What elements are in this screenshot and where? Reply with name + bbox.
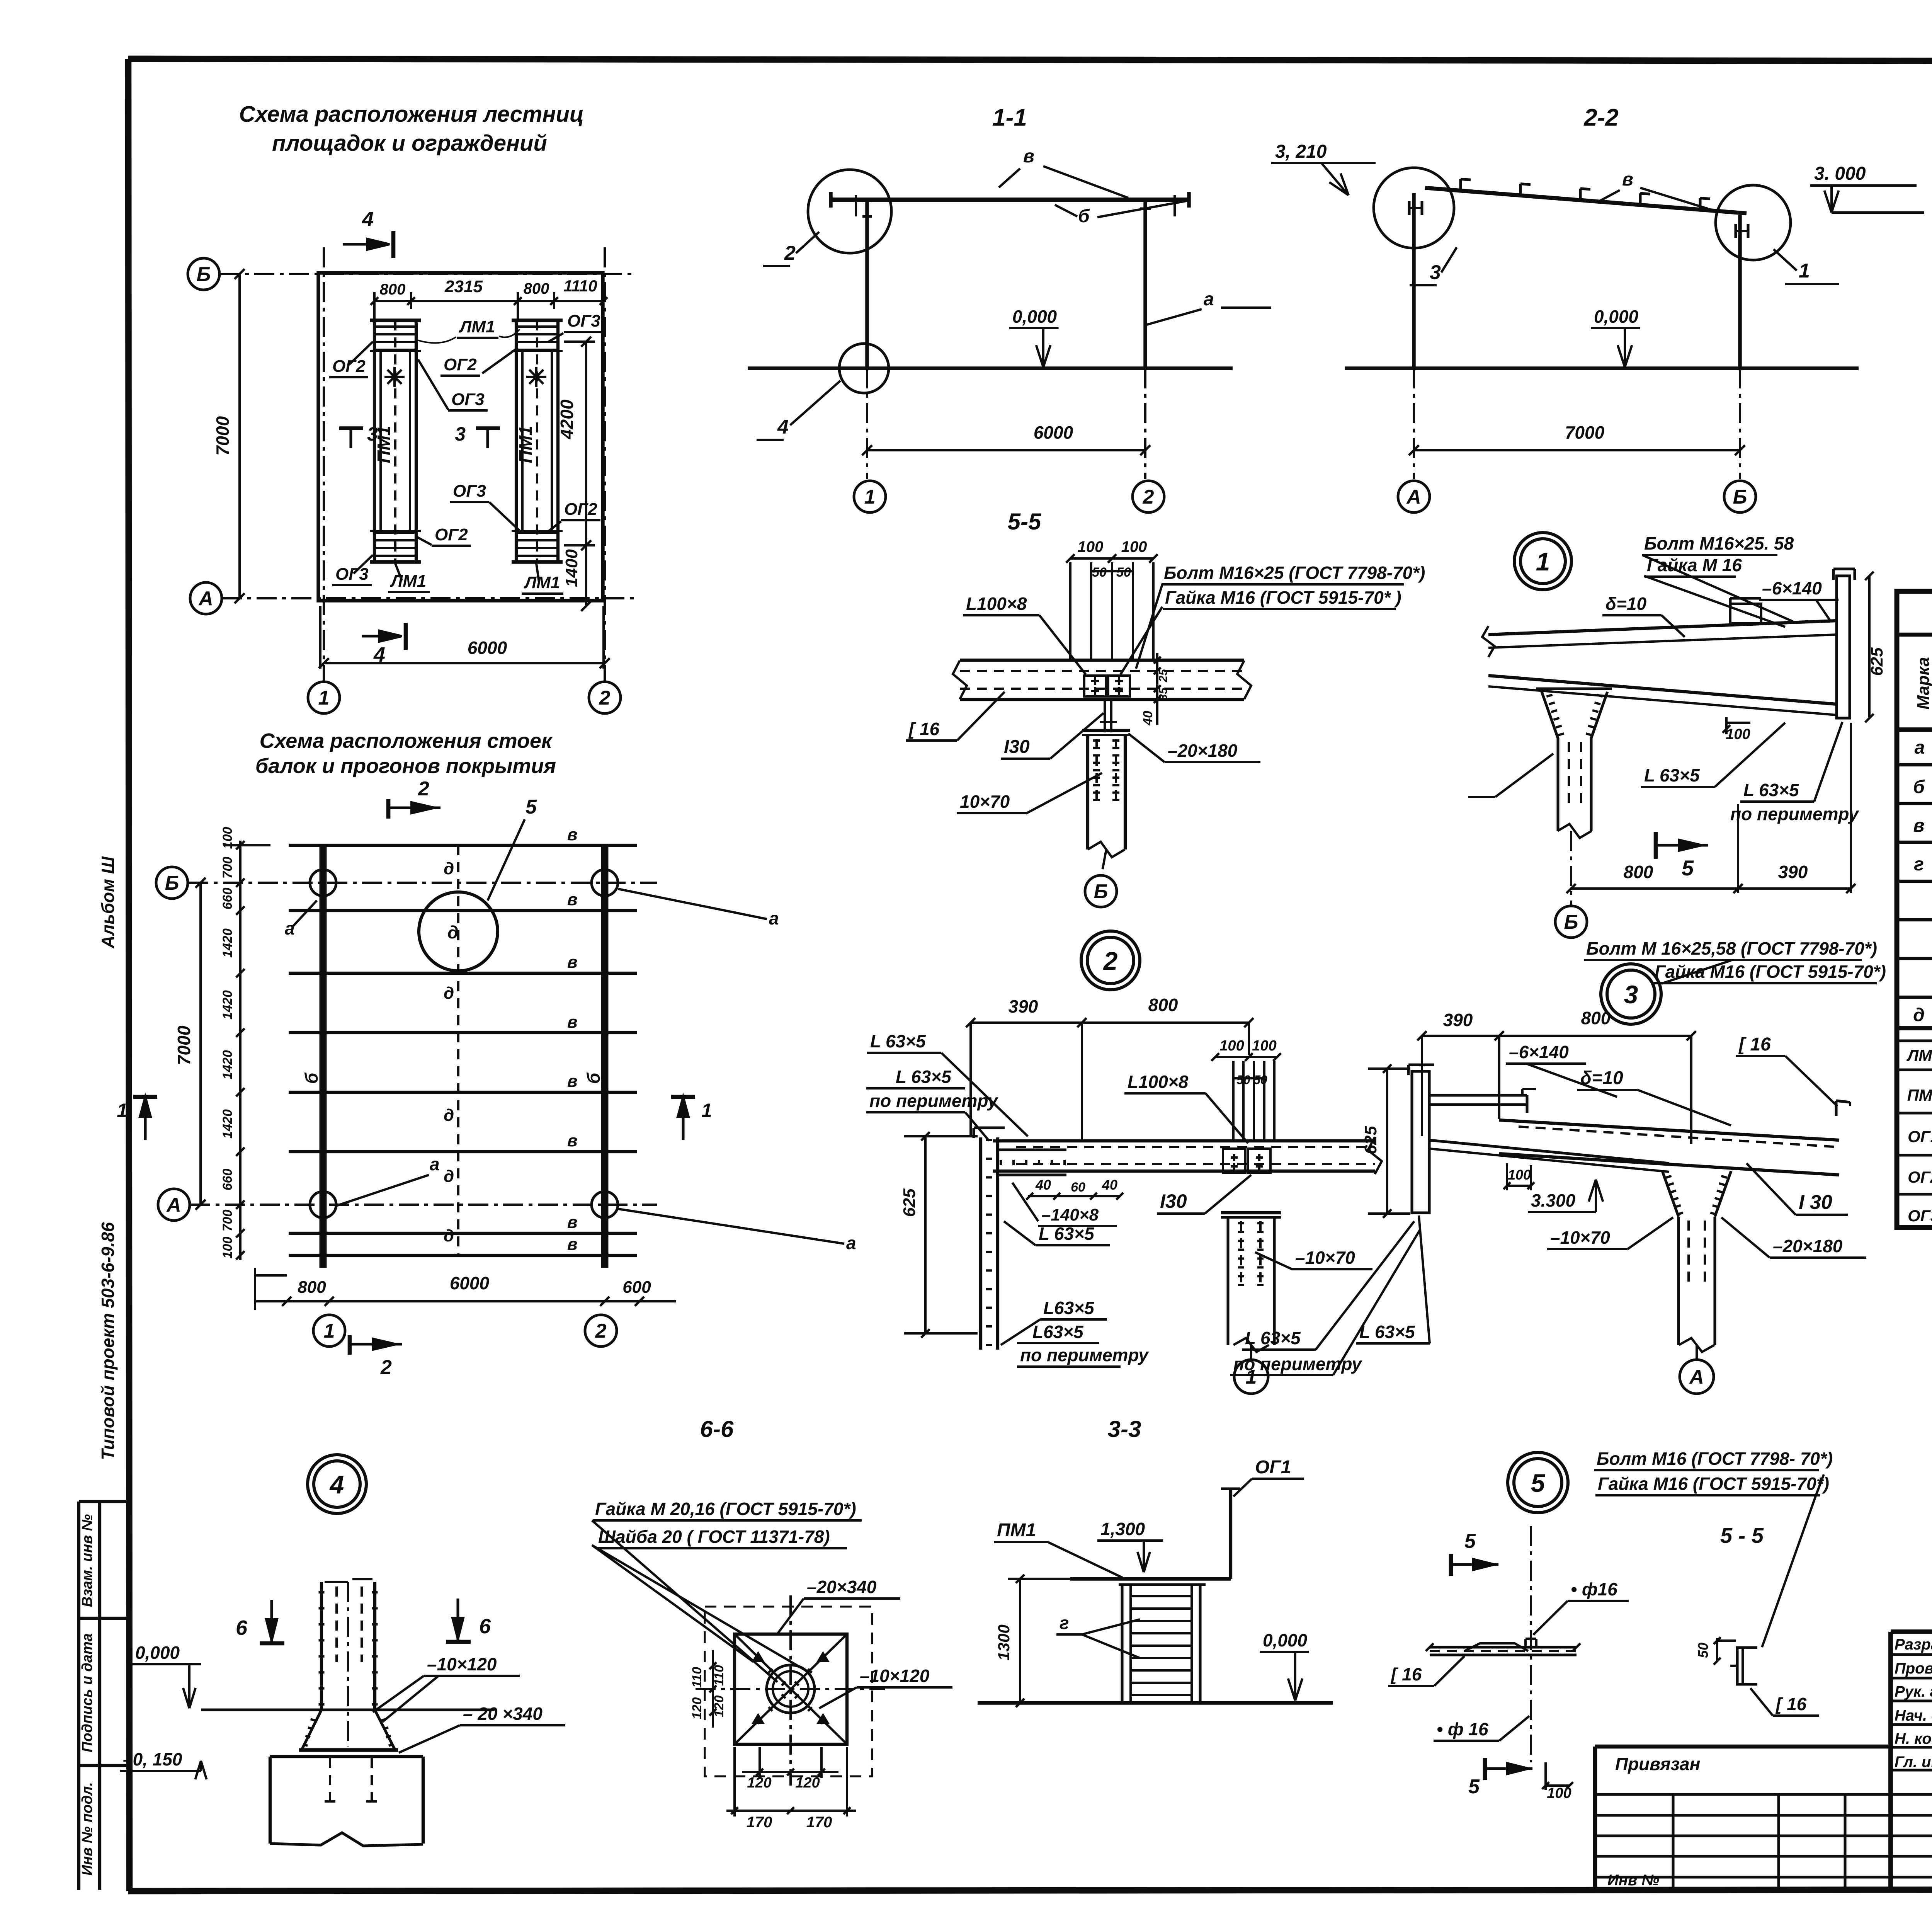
svg-text:5: 5: [1468, 1776, 1480, 1798]
axis line A horizontal: [222, 597, 634, 599]
svg-text:625: 625: [900, 1188, 919, 1217]
svg-text:3: 3: [1624, 980, 1638, 1009]
svg-text:625: 625: [1361, 1126, 1380, 1154]
section mark 1 left: [133, 1095, 157, 1099]
svg-text:–6×140: –6×140: [1509, 1042, 1569, 1062]
2-2 left column: [1412, 193, 1415, 368]
node2 dim 625: [924, 1136, 927, 1333]
svg-text:• ф 16: • ф 16: [1437, 1719, 1488, 1739]
node 1 bubble: [1514, 533, 1571, 590]
svg-text:120: 120: [712, 1696, 726, 1718]
1-1 axis circle 1: [854, 481, 886, 512]
svg-text:[ 16: [ 16: [1390, 1664, 1422, 1684]
svg-text:Гайка М16 (ГОСТ 5915-70*): Гайка М16 (ГОСТ 5915-70*): [1655, 962, 1886, 982]
5-5 beam pair: [960, 659, 1244, 662]
svg-text:2: 2: [784, 242, 796, 264]
axis circle A roof: [158, 1189, 190, 1221]
svg-text:7000: 7000: [213, 416, 233, 456]
svg-text:L100×8: L100×8: [1128, 1072, 1189, 1092]
svg-text:по периметру: по периметру: [1020, 1345, 1149, 1365]
1-1 right column: [1143, 200, 1147, 368]
grid line 2 vertical: [604, 247, 606, 682]
node2 bolt group: [1223, 1149, 1245, 1173]
svg-text:Провер: Провер: [1895, 1660, 1932, 1677]
svg-text:2-2: 2-2: [1583, 104, 1619, 131]
svg-text:Болт М 16×25,58 (ГОСТ 7798-70*: Болт М 16×25,58 (ГОСТ 7798-70*): [1586, 938, 1877, 958]
axis circle 2 roof: [585, 1315, 617, 1347]
svg-text:–10×70: –10×70: [1550, 1227, 1610, 1248]
svg-text:2: 2: [1143, 486, 1154, 508]
svg-text:в: в: [567, 825, 578, 844]
dim 7000 roof left: [199, 883, 202, 1205]
detail5 bolt vertical: [1530, 1526, 1532, 1762]
node3 column with gussets: [1662, 1171, 1679, 1217]
svg-text:L 63×5: L 63×5: [1039, 1224, 1095, 1244]
svg-text:800: 800: [380, 281, 406, 298]
svg-text:д: д: [444, 984, 454, 1003]
svg-text:1110: 1110: [563, 277, 597, 295]
svg-text:L 63×5: L 63×5: [870, 1031, 926, 1051]
detail5 plate left: [1430, 1646, 1577, 1648]
svg-text:40: 40: [1102, 1177, 1117, 1193]
table lower marka cells: [1897, 1039, 1932, 1042]
svg-text:800: 800: [524, 280, 549, 297]
svg-text:[ 16: [ 16: [908, 719, 940, 739]
base plan bolt circle: [767, 1665, 815, 1713]
svg-text:балок и прогонов покрытия: балок и прогонов покрытия: [255, 754, 556, 778]
svg-text:1: 1: [117, 1100, 128, 1121]
svg-text:Нач. отд: Нач. отд: [1895, 1707, 1932, 1724]
svg-text:L63×5: L63×5: [1043, 1298, 1095, 1318]
base plan plate square: [735, 1634, 847, 1744]
svg-text:660: 660: [220, 888, 235, 910]
svg-text:100: 100: [1121, 538, 1147, 555]
table title band line: [1897, 633, 1932, 637]
node 3 bubble: [1601, 964, 1661, 1024]
svg-text:–0, 150: –0, 150: [123, 1749, 182, 1769]
svg-text:ОГ3: ОГ3: [335, 565, 369, 584]
node2 left bracket angle: [998, 1148, 1066, 1151]
svg-text:2: 2: [418, 778, 429, 800]
svg-text:Болт М16×25 (ГОСТ 7798-70*): Болт М16×25 (ГОСТ 7798-70*): [1164, 563, 1425, 583]
svg-text:а: а: [1204, 289, 1214, 310]
column line 2 roof: [601, 845, 609, 1268]
svg-text:Гл. инж. по: Гл. инж. по: [1895, 1753, 1932, 1770]
svg-text:0,000: 0,000: [1263, 1630, 1308, 1650]
svg-text:2: 2: [595, 1320, 607, 1342]
svg-text:390: 390: [1009, 996, 1038, 1016]
3-3 ladder rungs: [1131, 1595, 1192, 1597]
svg-text:–10×120: –10×120: [427, 1654, 497, 1674]
svg-text:2: 2: [1103, 947, 1118, 975]
node2 axis to circle 1: [1250, 1345, 1252, 1360]
axis circle 2: [589, 682, 621, 713]
node1 column with gussets: [1542, 692, 1558, 738]
svg-text:5-5: 5-5: [1008, 509, 1042, 535]
svg-text:I 30: I 30: [1799, 1191, 1832, 1214]
svg-text:Б: Б: [1564, 911, 1578, 933]
svg-text:Инв №: Инв №: [1607, 1872, 1659, 1889]
staff table rows: [1891, 1653, 1932, 1656]
svg-text:б: б: [1913, 777, 1925, 797]
svg-text:Б: Б: [165, 872, 179, 894]
axis line B horizontal: [219, 273, 634, 275]
svg-text:0,000: 0,000: [135, 1643, 180, 1663]
svg-text:110: 110: [690, 1667, 704, 1688]
svg-text:800: 800: [1148, 995, 1178, 1015]
svg-text:2: 2: [599, 687, 611, 709]
svg-text:ЛМ1: ЛМ1: [1906, 1046, 1932, 1064]
node 2 bubble: [1081, 931, 1140, 990]
2-2 left circle node3: [1374, 168, 1454, 248]
detail5 channel weld tick: [1730, 1665, 1737, 1667]
svg-text:L 63×5: L 63×5: [1644, 765, 1700, 785]
svg-text:4200: 4200: [557, 399, 577, 439]
title block outer: [1891, 1629, 1932, 1634]
svg-text:2315: 2315: [444, 277, 483, 296]
svg-text:• ф16: • ф16: [1571, 1579, 1617, 1599]
svg-text:3: 3: [1430, 261, 1441, 284]
svg-text:100: 100: [1078, 538, 1104, 555]
svg-text:1: 1: [701, 1100, 712, 1121]
svg-text:100: 100: [1219, 1038, 1244, 1054]
svg-text:1420: 1420: [220, 1050, 235, 1079]
svg-text:д: д: [447, 922, 458, 942]
table lower thick separator: [1897, 1026, 1932, 1030]
svg-text:3: 3: [367, 423, 378, 445]
svg-text:5 - 5: 5 - 5: [1720, 1523, 1764, 1547]
table outer border: [1897, 591, 1932, 1227]
1-1 detail circle node4 base: [839, 344, 889, 393]
base plan dims 110 110 rotated: [712, 1650, 714, 1728]
node2 dims 100 100 50 50: [1215, 1056, 1277, 1058]
axis line A roof: [190, 1204, 657, 1206]
svg-text:Гайка М 20,16 (ГОСТ 5915-70*): Гайка М 20,16 (ГОСТ 5915-70*): [595, 1499, 856, 1519]
section mark 5 lower: [1483, 1758, 1487, 1780]
privyazan rows: [1595, 1793, 1891, 1796]
6-6 section marks 6: [260, 1641, 284, 1646]
node1 bolt bracket: [1730, 604, 1761, 623]
svg-text:Марка: Марка: [1914, 657, 1932, 710]
svg-text:Рук. гр.: Рук. гр.: [1895, 1683, 1932, 1700]
2-2 roof beam sloped: [1425, 188, 1747, 213]
node1 axis circle B: [1555, 906, 1587, 938]
column line 1 roof: [320, 845, 327, 1268]
svg-text:ОГ3: ОГ3: [1908, 1207, 1932, 1225]
1-1 ground line: [748, 366, 1233, 370]
bottom dim chain roof: [255, 1300, 676, 1302]
svg-text:1300: 1300: [995, 1624, 1013, 1660]
svg-text:Гайка М16 (ГОСТ 5915-70* ): Гайка М16 (ГОСТ 5915-70* ): [1165, 587, 1401, 608]
drawing frame: [128, 59, 1932, 62]
svg-text:5: 5: [1464, 1530, 1476, 1553]
svg-text:Схема расположения лестниц: Схема расположения лестниц: [239, 102, 584, 127]
axis circle A: [190, 582, 222, 614]
6-6 base plate: [299, 1748, 398, 1752]
stair hatch mark: [384, 376, 405, 378]
3-3 railing post: [1229, 1489, 1232, 1579]
axis line B roof: [188, 882, 657, 884]
svg-text:1400: 1400: [562, 549, 581, 587]
svg-text:в: в: [567, 1013, 578, 1032]
svg-text:в: в: [1913, 815, 1925, 836]
svg-text:6-6: 6-6: [700, 1416, 734, 1442]
node2 top dims 390 800: [971, 1021, 1249, 1024]
node1 end plate: [1837, 576, 1850, 718]
svg-text:120: 120: [795, 1775, 820, 1791]
svg-text:Разраб.: Разраб.: [1895, 1636, 1932, 1653]
svg-text:800: 800: [298, 1278, 326, 1297]
1-1 column axes dashdot: [866, 368, 868, 479]
svg-text:Типовой проект 503-6-9.86: Типовой проект 503-6-9.86: [98, 1222, 118, 1460]
svg-text:2: 2: [380, 1356, 392, 1379]
3-3 dim 1300: [1019, 1579, 1021, 1703]
svg-text:6000: 6000: [468, 638, 507, 658]
node3 end plate: [1412, 1071, 1429, 1213]
node2 beam: [993, 1139, 1375, 1142]
stair ladder strip: [374, 320, 416, 562]
svg-text:Б: Б: [1094, 880, 1108, 903]
1-1 column top symbols: [862, 215, 872, 218]
svg-text:б: б: [583, 1072, 604, 1084]
svg-text:ОГ1: ОГ1: [1908, 1127, 1932, 1146]
5-5 right small dims: [1156, 653, 1158, 725]
1-1 axis circle 2: [1133, 481, 1164, 512]
svg-text:660: 660: [220, 1169, 235, 1191]
2-2 right column: [1738, 215, 1742, 368]
svg-text:Гайка М 16: Гайка М 16: [1647, 555, 1742, 575]
node3 lower chord from plate: [1429, 1140, 1669, 1163]
svg-text:100: 100: [220, 1237, 235, 1259]
svg-text:1: 1: [324, 1320, 335, 1342]
svg-text:6000: 6000: [450, 1273, 490, 1293]
section mark 2 top: [386, 799, 391, 819]
node3 beam sloped: [1499, 1120, 1839, 1140]
node3 top angle arm: [1429, 1094, 1527, 1096]
svg-text:100: 100: [1252, 1038, 1276, 1054]
node circle 5 big: [419, 892, 498, 971]
svg-text:Болт М16 (ГОСТ 7798- 70*): Болт М16 (ГОСТ 7798- 70*): [1597, 1449, 1833, 1469]
dim 1400 right: [585, 545, 587, 606]
svg-text:3.300: 3.300: [1531, 1190, 1576, 1210]
node1 lower beam sloped: [1488, 676, 1837, 704]
axis circle B roof: [156, 867, 188, 899]
svg-text:г: г: [1914, 854, 1924, 875]
svg-text:170: 170: [747, 1814, 772, 1831]
svg-text:7000: 7000: [174, 1025, 194, 1065]
svg-text:в: в: [1622, 169, 1633, 190]
1-1 left column: [865, 200, 869, 368]
svg-text:ПМ1: ПМ1: [515, 426, 536, 463]
svg-text:ОГ3: ОГ3: [567, 312, 600, 330]
svg-text:1420: 1420: [220, 1109, 235, 1139]
node5 note leader: [1762, 1495, 1816, 1647]
svg-text:д: д: [444, 1167, 454, 1186]
section mark 4 top: [343, 243, 383, 245]
section mark 2 bottom: [348, 1335, 352, 1355]
node2 right column: [1226, 1217, 1229, 1345]
svg-text:Б: Б: [1733, 486, 1747, 508]
purlin beams: [289, 844, 637, 847]
svg-text:0,000: 0,000: [1594, 306, 1639, 327]
svg-text:д: д: [444, 1226, 454, 1245]
svg-text:700: 700: [220, 857, 235, 879]
svg-text:ОГ2: ОГ2: [564, 500, 597, 519]
svg-text:L63×5: L63×5: [1032, 1322, 1084, 1342]
section mark 4 bottom: [362, 635, 395, 637]
svg-text:а: а: [846, 1233, 856, 1253]
node2 left post: [979, 1137, 982, 1350]
svg-text:L 63×5: L 63×5: [1359, 1322, 1415, 1342]
dim 6000 bottom: [324, 662, 605, 664]
5-5 bolt group: [1084, 676, 1106, 696]
svg-text:5: 5: [1531, 1469, 1546, 1497]
base plan dims 120 120: [742, 1771, 838, 1773]
svg-text:40: 40: [1141, 711, 1155, 726]
svg-text:ЛМ1: ЛМ1: [390, 572, 426, 591]
base plan centerlines: [789, 1595, 792, 1786]
base plan dashed square: [705, 1607, 872, 1776]
svg-text:δ=10: δ=10: [1605, 594, 1647, 614]
6-6 level line: [201, 1708, 495, 1711]
svg-text:по периметру: по периметру: [1730, 804, 1859, 824]
section mark 1 right: [671, 1095, 695, 1099]
svg-text:40: 40: [1035, 1177, 1051, 1193]
dim 4200 right: [585, 342, 587, 545]
3-3 ground: [978, 1701, 1333, 1704]
axis circle B: [188, 258, 219, 290]
svg-text:110: 110: [712, 1665, 726, 1686]
svg-text:7000: 7000: [1565, 422, 1605, 443]
2-2 purlin marks on beam: [1459, 179, 1462, 191]
node3 axis circle A: [1680, 1360, 1714, 1394]
node3 dim 625: [1386, 1069, 1388, 1214]
svg-text:А: А: [198, 587, 213, 610]
section mark 5 upper: [1449, 1554, 1453, 1576]
svg-text:ОГ3: ОГ3: [453, 482, 486, 501]
detail5 dim 50: [1716, 1638, 1718, 1662]
6-6 column: [320, 1582, 323, 1710]
svg-text:I30: I30: [1160, 1190, 1187, 1212]
svg-text:I30: I30: [1004, 737, 1030, 757]
1-1 dim 6000: [867, 449, 1145, 451]
svg-text:А: А: [166, 1194, 181, 1216]
node1 leader lines to gusset: [1495, 754, 1553, 797]
section mark 3 right: [476, 426, 500, 430]
svg-text:ОГ2: ОГ2: [435, 525, 468, 544]
5-5 top dims 100 100: [1070, 557, 1153, 560]
svg-text:по периметру: по периметру: [869, 1091, 998, 1111]
svg-text:Взам. инв №: Взам. инв №: [79, 1514, 95, 1607]
svg-text:Болт М16×25. 58: Болт М16×25. 58: [1644, 533, 1794, 553]
svg-text:3. 000: 3. 000: [1814, 163, 1866, 184]
node1 dim 100: [1726, 722, 1750, 724]
svg-text:800: 800: [1624, 862, 1653, 882]
svg-text:L 63×5: L 63×5: [896, 1067, 952, 1087]
svg-text:б: б: [301, 1072, 321, 1084]
svg-text:д: д: [444, 1106, 454, 1125]
node3 top dims 390 800: [1422, 1035, 1691, 1037]
5-5 witness lines: [1069, 562, 1071, 662]
svg-text:Альбом Ш: Альбом Ш: [98, 856, 118, 949]
base plan dims 170 170: [726, 1810, 856, 1812]
svg-text:6000: 6000: [1034, 422, 1073, 443]
section mark 3 left: [339, 426, 363, 430]
svg-text:4: 4: [777, 416, 789, 438]
svg-text:3: 3: [455, 423, 466, 445]
node1 dim 625: [1868, 576, 1871, 718]
svg-text:д: д: [444, 859, 454, 878]
svg-text:25: 25: [1157, 669, 1170, 683]
left dim chain roof: [239, 841, 241, 1260]
svg-text:А: А: [1406, 486, 1421, 508]
svg-text:800: 800: [1581, 1008, 1611, 1028]
svg-text:1420: 1420: [220, 990, 235, 1020]
svg-text:Схема расположения стоек: Схема расположения стоек: [260, 729, 553, 752]
svg-text:1,300: 1,300: [1100, 1519, 1145, 1539]
table header bottom line: [1897, 727, 1932, 732]
svg-text:площадок и ограждений: площадок и ограждений: [272, 131, 547, 156]
stairs plan outline: [318, 273, 603, 601]
node1 bottom dims 800 390: [1571, 887, 1851, 890]
svg-text:д: д: [1913, 1005, 1925, 1025]
svg-text:1: 1: [318, 687, 330, 709]
6-6 foundation block: [269, 1757, 272, 1844]
svg-text:0,000: 0,000: [1012, 306, 1057, 327]
2-2 axis circle A: [1398, 481, 1430, 512]
stair ladder strip: [516, 320, 558, 562]
node1 axis dashdot to B: [1570, 831, 1572, 905]
svg-text:в: в: [567, 1072, 578, 1091]
dim 7000 left: [238, 274, 241, 598]
2-2 dim 7000: [1414, 449, 1740, 451]
ridge dashed line: [457, 845, 459, 1255]
svg-text:в: в: [567, 1213, 578, 1232]
top dim chain 800 2315 800 1110: [374, 300, 604, 302]
svg-text:ОГ1: ОГ1: [1255, 1457, 1291, 1478]
3-3 platform floor: [1070, 1577, 1231, 1580]
left column lines: [77, 1502, 80, 1890]
svg-text:а: а: [430, 1154, 440, 1174]
svg-text:ПМ1: ПМ1: [1907, 1086, 1932, 1104]
svg-text:ОГ3: ОГ3: [451, 390, 485, 409]
5-5 I-beam stub: [1104, 700, 1106, 732]
2-2 ground line: [1345, 366, 1859, 370]
svg-text:б: б: [1078, 206, 1090, 226]
node 4 bubble: [308, 1455, 366, 1513]
node2 axis circle 1: [1234, 1360, 1268, 1394]
svg-text:–10×120: –10×120: [860, 1666, 930, 1686]
svg-text:А: А: [1689, 1366, 1704, 1388]
svg-text:120: 120: [690, 1697, 704, 1719]
svg-text:L 63×5: L 63×5: [1743, 780, 1799, 800]
svg-text:[ 16: [ 16: [1775, 1694, 1807, 1714]
svg-text:–20×340: –20×340: [807, 1577, 877, 1597]
2-2 column axes dashdot: [1413, 368, 1415, 479]
6-6 anchor bolts: [329, 1758, 331, 1801]
svg-text:35: 35: [1157, 687, 1170, 701]
axis circle 1: [308, 682, 340, 713]
privyazan cols: [1672, 1794, 1674, 1890]
svg-text:Подпись и дата: Подпись и дата: [79, 1633, 95, 1752]
svg-text:ОГ2: ОГ2: [444, 355, 477, 374]
svg-text:Н. контр: Н. контр: [1895, 1730, 1932, 1747]
1-1 top beam: [831, 197, 1189, 202]
svg-text:[ 16: [ 16: [1738, 1034, 1771, 1055]
svg-text:1-1: 1-1: [992, 104, 1027, 131]
svg-text:а: а: [769, 908, 779, 928]
privyazan box: [1595, 1745, 1891, 1749]
